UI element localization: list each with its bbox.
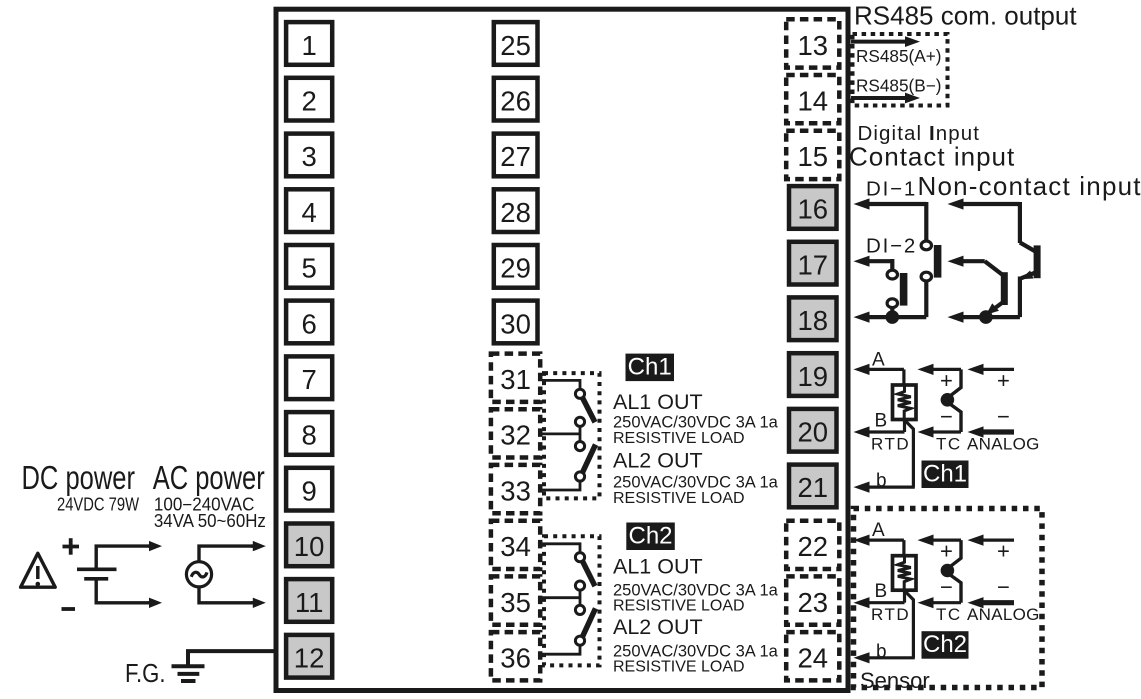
svg-text:24VDC 79W: 24VDC 79W <box>57 495 139 515</box>
terminal 13 <box>786 19 839 67</box>
svg-text:29: 29 <box>500 253 531 284</box>
svg-text:250VAC/30VDC 3A 1a: 250VAC/30VDC 3A 1a <box>613 474 779 492</box>
terminal 26 <box>494 78 538 121</box>
svg-text:TC: TC <box>936 435 962 454</box>
thermocouple TC + wire <box>932 368 962 371</box>
Ch1 alarm relay dotted box <box>544 373 600 498</box>
transistor Q2 <box>1001 272 1008 305</box>
svg-text:5: 5 <box>301 253 316 284</box>
label Ch2 <box>626 523 675 551</box>
terminal 27 <box>494 134 538 177</box>
wire common to terminal 18 <box>868 315 927 319</box>
svg-text:27: 27 <box>500 141 531 172</box>
ground symbol <box>172 664 205 668</box>
svg-text:32: 32 <box>500 420 531 451</box>
svg-text:F.G.: F.G. <box>125 658 166 688</box>
svg-text:33: 33 <box>500 475 531 506</box>
svg-text:7: 7 <box>301 364 316 395</box>
terminal 9 <box>286 468 332 511</box>
RTD resistor <box>893 556 917 591</box>
main unit outline <box>276 9 848 690</box>
svg-text:RTD: RTD <box>871 605 910 624</box>
analog input wires <box>982 368 1015 371</box>
svg-text:−: − <box>997 404 1010 429</box>
svg-text:DI−1: DI−1 <box>866 178 917 201</box>
terminal 2 <box>286 78 332 121</box>
terminal 36 <box>491 632 540 680</box>
wire terminal 31 <box>542 380 580 389</box>
terminal 6 <box>286 301 332 344</box>
terminal 21 <box>789 465 837 508</box>
svg-text:35: 35 <box>500 587 531 618</box>
RS485 dotted box <box>853 34 948 106</box>
svg-text:36: 36 <box>500 643 531 674</box>
terminal 22 <box>786 521 839 569</box>
wire to terminal 17 (non-contact) <box>962 259 985 263</box>
svg-text:16: 16 <box>798 194 829 225</box>
terminal 20 <box>789 409 837 452</box>
wire b to terminal <box>906 421 914 487</box>
wire RS485 A+ <box>851 40 907 44</box>
svg-text:AL2 OUT: AL2 OUT <box>613 615 703 639</box>
svg-text:RESISTIVE LOAD: RESISTIVE LOAD <box>613 659 745 676</box>
svg-text:−: − <box>940 404 953 429</box>
svg-text:20: 20 <box>798 417 829 448</box>
svg-text:b: b <box>876 641 887 662</box>
svg-text:−: − <box>997 575 1010 600</box>
svg-text:AL2 OUT: AL2 OUT <box>613 449 703 473</box>
svg-text:31: 31 <box>500 364 531 395</box>
battery B1 (24VDC) <box>77 567 117 571</box>
relay contact AL2 <box>582 608 596 637</box>
svg-text:10: 10 <box>294 531 325 562</box>
svg-text:AL1 OUT: AL1 OUT <box>613 555 703 579</box>
terminal 11 <box>286 579 332 622</box>
svg-text:14: 14 <box>798 86 829 117</box>
terminal 7 <box>286 356 332 399</box>
svg-text:13: 13 <box>798 30 829 61</box>
wire common to terminal 18 (non-contact) <box>962 315 1020 319</box>
svg-text:RTD: RTD <box>871 435 910 454</box>
svg-text:21: 21 <box>798 472 829 503</box>
terminal 10 <box>286 524 332 567</box>
svg-text:24: 24 <box>798 643 829 674</box>
svg-text:17: 17 <box>798 249 829 280</box>
svg-text:4: 4 <box>301 197 316 228</box>
wire A to terminal <box>868 538 904 541</box>
wire AC N to terminal 11 <box>199 587 253 603</box>
svg-text:RESISTIVE LOAD: RESISTIVE LOAD <box>613 490 745 507</box>
terminal 5 <box>286 245 332 288</box>
wire RS485 B- <box>851 96 907 100</box>
svg-text:A: A <box>872 520 885 541</box>
wire F.G. to case <box>188 651 276 665</box>
svg-text:AC power: AC power <box>153 459 265 496</box>
svg-text:6: 6 <box>301 308 316 339</box>
svg-text:B: B <box>875 581 888 602</box>
svg-text:9: 9 <box>301 475 316 506</box>
svg-text:Ch1: Ch1 <box>923 461 967 488</box>
switch S2 (DI-2) <box>887 270 897 279</box>
label Ch1 <box>626 354 675 382</box>
svg-text:TC: TC <box>936 605 962 624</box>
terminal 28 <box>494 189 538 232</box>
terminal 33 <box>491 465 540 513</box>
svg-text:19: 19 <box>798 361 829 392</box>
RTD resistor <box>893 385 917 420</box>
svg-text:18: 18 <box>798 305 829 336</box>
Ch2 alarm relay dotted box <box>544 536 600 665</box>
svg-text:2: 2 <box>301 86 316 117</box>
svg-text:Ch1: Ch1 <box>628 354 672 381</box>
wire b to terminal <box>906 592 914 658</box>
terminal 8 <box>286 412 332 455</box>
junction node <box>979 310 993 324</box>
svg-text:8: 8 <box>301 420 316 451</box>
AC source G1 <box>186 562 211 587</box>
svg-text:A: A <box>872 349 885 370</box>
terminal 31 <box>491 354 540 402</box>
svg-text:DC power: DC power <box>22 459 136 496</box>
terminal 34 <box>491 521 540 569</box>
svg-text:+: + <box>940 368 953 393</box>
terminal 17 <box>789 242 837 285</box>
svg-text:Sensor: Sensor <box>860 668 930 693</box>
relay contact AL1 <box>575 389 584 398</box>
svg-text:28: 28 <box>500 197 531 228</box>
wire A to terminal <box>868 368 904 371</box>
svg-text:Non-contact input: Non-contact input <box>918 171 1141 201</box>
svg-text:250VAC/30VDC 3A 1a: 250VAC/30VDC 3A 1a <box>613 414 779 432</box>
terminal 35 <box>491 576 540 624</box>
wire to terminal 16 (non-contact) <box>962 202 1020 206</box>
svg-text:+: + <box>997 539 1010 564</box>
terminal 16 <box>789 186 837 229</box>
wire B to terminal <box>868 430 905 433</box>
svg-text:+: + <box>997 368 1010 393</box>
analog input wires <box>982 538 1015 541</box>
terminal 15 <box>786 131 839 179</box>
relay contact AL1 <box>575 553 584 562</box>
terminal 12 <box>286 635 332 678</box>
svg-text:25: 25 <box>500 30 531 61</box>
terminal 32 <box>491 409 540 457</box>
terminal 29 <box>494 245 538 288</box>
svg-text:12: 12 <box>294 643 325 674</box>
svg-text:B: B <box>875 411 888 432</box>
terminal 4 <box>286 189 332 232</box>
wire DC- to terminal 11 <box>96 581 150 603</box>
wire B to terminal <box>868 601 905 604</box>
wire DI-1 to terminal 16 <box>868 202 927 206</box>
junction node <box>886 310 900 324</box>
terminal 25 <box>494 22 538 65</box>
Sensor dotted box (Ch2) <box>854 509 1043 688</box>
terminal 3 <box>286 134 332 177</box>
label Ch2 (sensor) <box>922 631 969 659</box>
svg-text:Ch2: Ch2 <box>923 631 967 658</box>
terminal 23 <box>786 576 839 624</box>
svg-text:Contact input: Contact input <box>849 142 1015 172</box>
switch S1 (DI-1) <box>921 241 931 250</box>
svg-text:30: 30 <box>500 308 531 339</box>
svg-text:AL1 OUT: AL1 OUT <box>613 390 703 414</box>
svg-text:RESISTIVE LOAD: RESISTIVE LOAD <box>613 430 745 447</box>
svg-text:3: 3 <box>301 141 316 172</box>
svg-text:RESISTIVE LOAD: RESISTIVE LOAD <box>613 598 745 615</box>
svg-text:RS485(A+): RS485(A+) <box>856 46 942 66</box>
thermocouple TC + wire <box>932 538 962 541</box>
svg-text:ANALOG: ANALOG <box>967 435 1040 454</box>
wire AC L to terminal 10 <box>199 546 253 562</box>
svg-text:+: + <box>940 539 953 564</box>
wire DC+ to terminal 10 <box>96 546 150 567</box>
terminal 18 <box>789 297 837 340</box>
svg-text:RS485 com. output: RS485 com. output <box>854 1 1077 31</box>
wire DI-2 to terminal 17 <box>868 259 893 263</box>
svg-text:1: 1 <box>301 30 316 61</box>
svg-text:22: 22 <box>798 531 829 562</box>
svg-text:15: 15 <box>798 141 829 172</box>
svg-text:23: 23 <box>798 587 829 618</box>
warning symbol <box>21 553 56 587</box>
terminal 14 <box>786 75 839 123</box>
relay contact AL2 <box>582 445 596 474</box>
svg-text:26: 26 <box>500 86 531 117</box>
terminal 24 <box>786 632 839 680</box>
terminal 19 <box>789 353 837 396</box>
transistor Q1 <box>1034 245 1041 278</box>
svg-text:ANALOG: ANALOG <box>967 605 1040 624</box>
svg-text:DI−2: DI−2 <box>866 235 917 258</box>
svg-text:RS485(B−): RS485(B−) <box>856 76 942 96</box>
svg-text:Ch2: Ch2 <box>628 523 672 550</box>
svg-text:11: 11 <box>295 587 324 618</box>
wire terminal 34 <box>542 544 580 553</box>
terminal 1 <box>286 22 332 65</box>
svg-text:b: b <box>876 471 887 492</box>
svg-text:34: 34 <box>500 531 531 562</box>
label Ch1 (sensor) <box>922 461 969 489</box>
terminal 30 <box>494 301 538 344</box>
svg-text:−: − <box>940 575 953 600</box>
svg-text:34VA 50~60Hz: 34VA 50~60Hz <box>154 511 266 531</box>
